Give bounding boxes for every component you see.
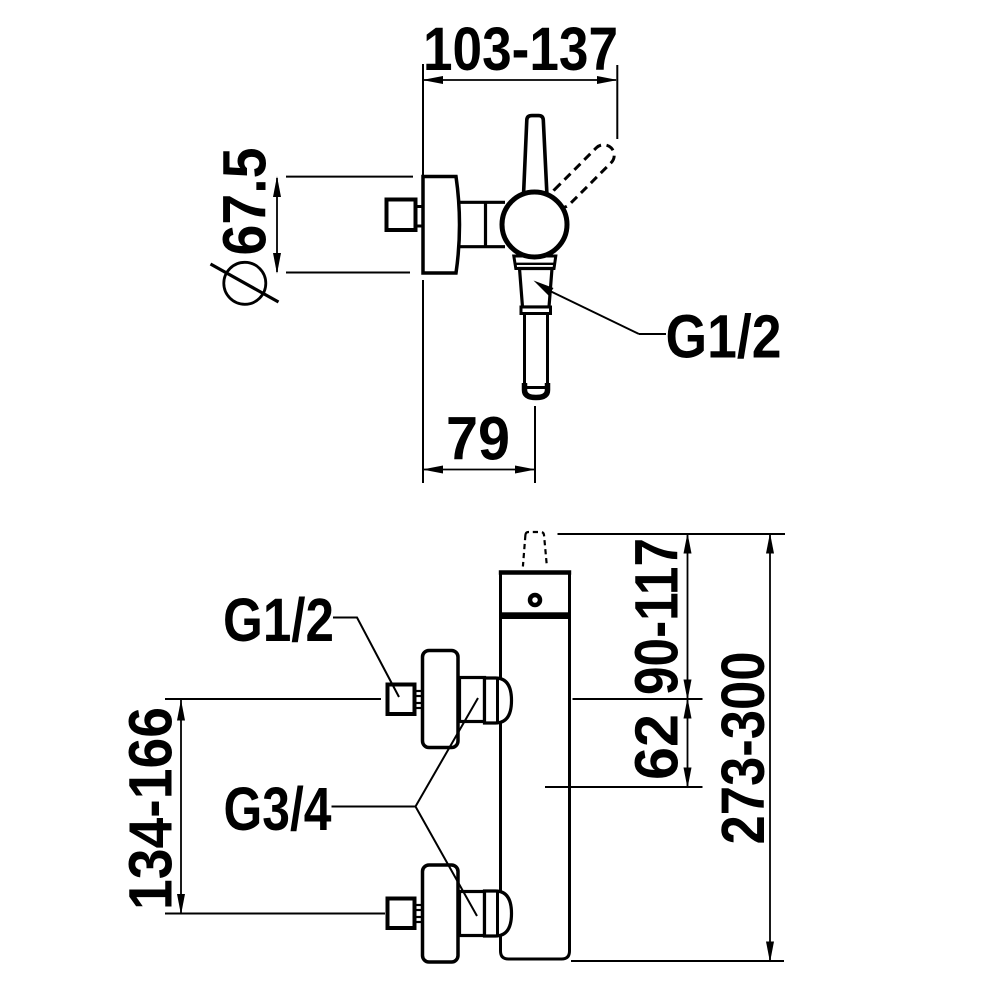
diameter symbol [211,262,279,304]
tapered outlet [520,269,553,308]
neck under cartridge [514,256,556,269]
extension line spout centerline (right) [545,786,703,788]
dashed hose outlet stub [523,532,547,567]
svg-text:273-300: 273-300 [709,652,777,845]
dimension line 67.5 [276,178,278,272]
outlet collar [521,307,551,314]
escutcheon flange (side view) [423,177,460,274]
outlet tube [525,314,548,388]
extension line left of 103-137 [422,64,424,176]
dimension line 79 [424,469,534,471]
extension line right of 103-137 [616,65,618,139]
svg-text:134-166: 134-166 [117,707,185,910]
upper union: escutcheon [423,651,459,748]
dashed alternate handle position [547,140,618,211]
wall nipple G1/2 (square, side view) [387,200,416,231]
svg-text:G1/2: G1/2 [666,303,782,371]
dimension line 103-137 [424,79,616,81]
extension line upper centerline (right) [573,698,703,700]
body column [501,573,570,960]
upper union: connector [460,678,485,722]
lower union: escutcheon [423,865,459,962]
lower union: connector [460,892,485,936]
extension line left of 79 [422,280,424,483]
dimension line 134-166 [180,700,182,913]
leader arrow to outlet (G1/2 top) [534,281,554,296]
extension line bottom (y 961) [571,960,784,962]
svg-text:79: 79 [446,405,510,473]
set screw [530,595,540,605]
vertical lever handle [523,116,547,200]
outlet end cap [525,383,548,398]
svg-text:103-137: 103-137 [423,15,618,83]
svg-text:G3/4: G3/4 [224,775,332,843]
extension line top of 67.5 [286,176,413,178]
extension line upper centerline (left) [165,698,381,700]
cartridge ball circle [502,192,567,257]
dimension line 273-300 [769,535,771,961]
lower union: wall nipple G1/2 [388,899,415,929]
clamp band (solid) [499,612,571,619]
leader G3/4 to both unions [332,698,479,916]
body tube between flange and cartridge [459,202,505,246]
lower union: nut dome [485,891,512,936]
upper union: nut dome [485,678,512,723]
leader G1/2 to upper nipple [333,618,399,698]
body top edge (heavy) [499,570,571,575]
dimension line 90-117 [687,535,689,699]
upper union: wall nipple G1/2 [388,685,415,715]
extension line lower centerline (left) [165,913,385,915]
svg-text:90-117: 90-117 [623,538,691,695]
upper union: thread stub [415,691,422,708]
svg-text:62: 62 [623,714,691,780]
lower union: thread stub [415,905,422,922]
svg-text:67.5: 67.5 [211,148,279,256]
nipple thread stub [416,205,423,208]
dimension line 62 [687,700,689,787]
extension line top (y 534) [558,533,786,535]
svg-text:G1/2: G1/2 [223,586,334,654]
extension line right of 79 [534,406,536,483]
extension line bottom of 67.5 [286,272,410,274]
